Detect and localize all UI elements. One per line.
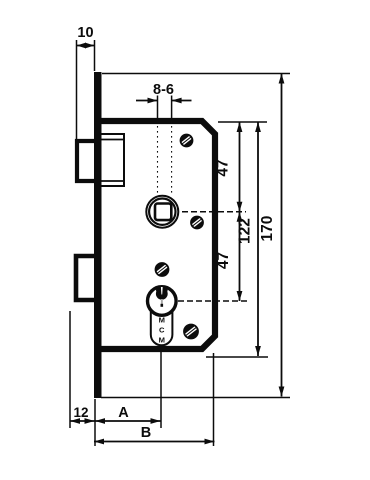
extension line faceplate bottom right <box>101 397 290 399</box>
node cylinder centerline <box>178 300 250 302</box>
svg-text:47: 47 <box>215 252 232 269</box>
dimension 12 label <box>73 405 88 420</box>
dimension A arrows <box>95 418 161 424</box>
svg-text:8-6: 8-6 <box>153 82 174 98</box>
dimension 8-6 label <box>153 82 174 98</box>
lock body <box>94 121 215 349</box>
extension line latch face <box>76 40 78 140</box>
extension line body right bottom <box>213 353 215 446</box>
dimension 170 label <box>259 216 276 242</box>
svg-text:122: 122 <box>237 218 254 244</box>
dimension B arrows <box>94 439 215 445</box>
svg-text:A: A <box>118 405 129 421</box>
deadbolt protrusion <box>76 256 97 300</box>
svg-text:170: 170 <box>259 216 276 242</box>
screw S1 top <box>181 135 193 147</box>
extension line faceplate top right <box>102 73 290 75</box>
extension line body top right <box>218 121 267 123</box>
latch bolt body <box>101 134 125 186</box>
dimension 122 label <box>237 218 254 244</box>
cylinder MCM letters <box>159 316 165 345</box>
dimension 122 line <box>255 122 261 356</box>
extension line follower square right <box>171 96 173 196</box>
faceplate <box>94 72 102 398</box>
follower hub <box>146 196 178 228</box>
screw S4 bottom right <box>184 325 198 339</box>
screw S2 right of follower <box>191 217 203 229</box>
extension line follower square left <box>157 96 159 196</box>
node cylinder axis vertical <box>160 346 162 428</box>
dimension 8-6 arrows <box>136 98 192 104</box>
extension line body bottom right <box>206 356 268 358</box>
dimension B label <box>141 425 151 441</box>
dimension 47 upper label <box>215 159 232 176</box>
dimension 10 arrow <box>77 43 95 49</box>
extension line faceplate bottom-left <box>94 399 96 446</box>
node follower centerline <box>182 211 246 213</box>
dimension 170 line <box>279 74 285 397</box>
cylinder body (stadium) <box>151 302 173 345</box>
svg-text:C: C <box>159 326 165 335</box>
extension line deadbolt left <box>69 311 71 428</box>
dimension 47-47 line <box>237 122 243 301</box>
dimension 10 label <box>77 25 93 41</box>
svg-text:12: 12 <box>73 405 88 420</box>
screw S3 above cylinder <box>156 263 169 276</box>
extension line faceplate top-left <box>94 40 96 71</box>
cylinder ring <box>148 287 177 316</box>
latch bolt protrusion <box>77 141 97 181</box>
key silhouette <box>156 287 168 307</box>
svg-text:B: B <box>141 425 151 441</box>
dimension 47 lower label <box>215 252 232 269</box>
svg-text:10: 10 <box>77 25 93 41</box>
dimension 12 arrows <box>70 418 95 424</box>
svg-text:47: 47 <box>215 159 232 176</box>
dimension A label <box>118 405 129 421</box>
svg-text:M: M <box>159 336 165 345</box>
